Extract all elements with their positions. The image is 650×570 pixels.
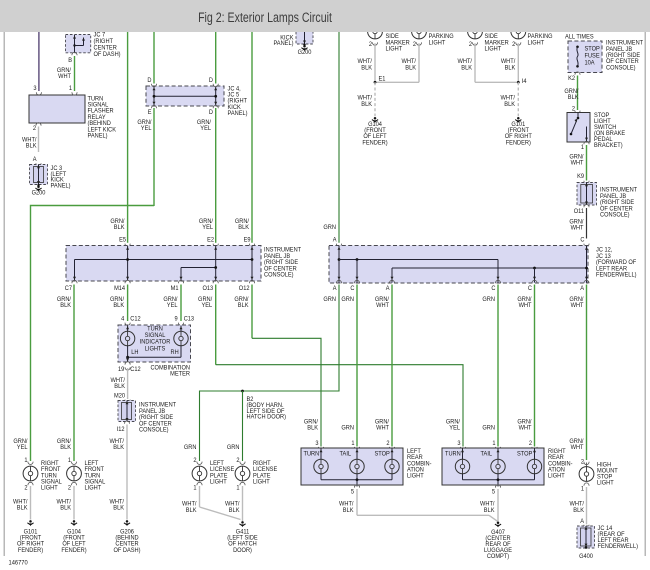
svg-text:19: 19 <box>118 367 125 373</box>
svg-text:YEL: YEL <box>202 225 213 231</box>
svg-text:A: A <box>333 286 337 292</box>
svg-text:BLK: BLK <box>114 225 125 231</box>
svg-text:BLK: BLK <box>60 445 71 451</box>
svg-text:C: C <box>528 286 533 292</box>
svg-text:RH: RH <box>171 350 179 356</box>
svg-text:PANEL): PANEL) <box>88 133 108 139</box>
svg-text:LH: LH <box>131 350 138 356</box>
svg-text:FENDERWELL): FENDERWELL) <box>596 272 636 278</box>
svg-text:Fig 2: Exterior Lamps Circuit: Fig 2: Exterior Lamps Circuit <box>198 9 332 25</box>
svg-text:YEL: YEL <box>449 425 460 431</box>
svg-text:COMPT): COMPT) <box>487 554 509 560</box>
svg-text:FUSE: FUSE <box>585 53 600 59</box>
svg-text:BLK: BLK <box>113 505 124 511</box>
svg-text:BLK: BLK <box>17 505 28 511</box>
svg-text:(RIGHT: (RIGHT <box>94 39 114 45</box>
svg-text:WHT: WHT <box>571 225 584 231</box>
svg-text:LIGHT: LIGHT <box>528 40 545 46</box>
svg-text:LIGHT: LIGHT <box>85 485 102 491</box>
svg-text:WHT: WHT <box>519 303 532 309</box>
svg-text:BLK: BLK <box>307 425 318 431</box>
svg-text:LIGHT: LIGHT <box>597 480 614 486</box>
svg-text:BLK: BLK <box>568 95 579 101</box>
svg-text:E9: E9 <box>244 237 252 243</box>
svg-text:BLK: BLK <box>238 225 249 231</box>
svg-text:STOP: STOP <box>517 451 532 457</box>
svg-text:PANEL): PANEL) <box>51 183 71 189</box>
svg-text:TURN: TURN <box>304 451 320 457</box>
svg-text:BLK: BLK <box>238 303 249 309</box>
svg-text:COMBINATION: COMBINATION <box>150 365 190 371</box>
svg-text:YEL: YEL <box>141 126 152 132</box>
svg-text:A: A <box>386 286 390 292</box>
svg-text:FENDERWELL): FENDERWELL) <box>598 544 638 550</box>
svg-text:BRACKET): BRACKET) <box>594 143 623 149</box>
svg-text:WHT: WHT <box>571 445 584 451</box>
svg-text:STOP: STOP <box>585 46 600 52</box>
svg-text:BLK: BLK <box>573 508 584 514</box>
svg-text:LIGHT: LIGHT <box>429 40 446 46</box>
svg-text:BLK: BLK <box>229 508 240 514</box>
svg-text:JC 7: JC 7 <box>94 32 106 38</box>
svg-text:D: D <box>209 78 214 84</box>
svg-text:CONSOLE): CONSOLE) <box>606 65 636 71</box>
svg-text:BLK: BLK <box>405 65 416 71</box>
svg-text:M14: M14 <box>114 286 126 292</box>
svg-text:BLK: BLK <box>484 508 495 514</box>
svg-text:CONSOLE): CONSOLE) <box>264 272 294 278</box>
svg-text:BLK: BLK <box>504 102 515 108</box>
svg-text:10A: 10A <box>585 60 595 66</box>
svg-text:LIGHT: LIGHT <box>548 473 565 479</box>
svg-text:BLK: BLK <box>60 505 71 511</box>
svg-text:CONSOLE): CONSOLE) <box>600 212 630 218</box>
svg-text:LIGHT: LIGHT <box>41 485 58 491</box>
svg-text:BLK: BLK <box>60 303 71 309</box>
svg-text:BLK: BLK <box>186 508 197 514</box>
svg-text:C12: C12 <box>130 367 141 373</box>
svg-text:BLK: BLK <box>113 445 124 451</box>
svg-text:GRN: GRN <box>184 445 197 451</box>
svg-text:C12: C12 <box>130 316 141 322</box>
svg-text:C: C <box>580 237 585 243</box>
svg-text:A: A <box>33 157 37 163</box>
svg-text:FENDER): FENDER) <box>61 548 86 554</box>
svg-text:WHT: WHT <box>376 425 389 431</box>
svg-text:C: C <box>491 286 496 292</box>
svg-text:E: E <box>148 110 152 116</box>
svg-text:HATCH DOOR): HATCH DOOR) <box>247 414 287 420</box>
svg-text:WHT: WHT <box>519 425 532 431</box>
svg-text:G200: G200 <box>298 50 312 56</box>
svg-text:METER: METER <box>170 371 190 377</box>
svg-text:PANEL): PANEL) <box>273 41 293 47</box>
svg-text:M20: M20 <box>114 393 126 399</box>
svg-text:K2: K2 <box>568 76 576 82</box>
svg-text:OF DASH): OF DASH) <box>94 52 121 58</box>
svg-text:O13: O13 <box>202 286 213 292</box>
svg-text:I12: I12 <box>117 427 126 433</box>
svg-text:OF DASH): OF DASH) <box>113 548 140 554</box>
svg-text:BLK: BLK <box>461 65 472 71</box>
svg-text:BLK: BLK <box>361 65 372 71</box>
svg-text:INDICATOR: INDICATOR <box>140 339 171 345</box>
svg-text:WHT: WHT <box>376 303 389 309</box>
svg-text:BLK: BLK <box>343 508 354 514</box>
svg-text:K9: K9 <box>577 174 585 180</box>
svg-text:A: A <box>333 237 337 243</box>
svg-text:D: D <box>147 78 152 84</box>
svg-text:FENDER): FENDER) <box>18 548 43 554</box>
svg-text:GRN: GRN <box>341 425 354 431</box>
svg-text:E5: E5 <box>119 237 127 243</box>
svg-text:D: D <box>209 110 214 116</box>
svg-text:C: C <box>350 286 355 292</box>
svg-text:ALL TIMES: ALL TIMES <box>565 34 594 40</box>
svg-text:PANEL): PANEL) <box>228 111 248 117</box>
svg-text:LIGHT: LIGHT <box>407 473 424 479</box>
svg-text:O12: O12 <box>239 286 250 292</box>
svg-text:DOOR): DOOR) <box>233 548 252 554</box>
svg-text:A: A <box>580 286 584 292</box>
svg-text:YEL: YEL <box>201 303 212 309</box>
svg-text:CONSOLE): CONSOLE) <box>139 427 169 433</box>
svg-text:SIGNAL: SIGNAL <box>145 333 166 339</box>
svg-text:LIGHT: LIGHT <box>485 46 502 52</box>
svg-text:GRN: GRN <box>227 445 240 451</box>
svg-text:WHT: WHT <box>571 160 584 166</box>
svg-text:TAIL: TAIL <box>481 451 493 457</box>
svg-text:WHT: WHT <box>58 74 71 80</box>
svg-text:A: A <box>580 519 584 525</box>
svg-text:B: B <box>68 58 72 64</box>
svg-text:BLK: BLK <box>505 65 516 71</box>
svg-text:GRN: GRN <box>323 297 336 303</box>
svg-text:BLK: BLK <box>113 303 124 309</box>
svg-text:LIGHT: LIGHT <box>253 479 270 485</box>
svg-text:STOP: STOP <box>375 451 390 457</box>
svg-text:C13: C13 <box>184 316 195 322</box>
svg-text:TURN: TURN <box>445 451 461 457</box>
svg-text:CENTER: CENTER <box>94 45 118 51</box>
svg-text:TURN: TURN <box>147 326 163 332</box>
svg-text:LIGHT: LIGHT <box>210 479 227 485</box>
svg-text:TAIL: TAIL <box>340 451 352 457</box>
svg-text:GRN: GRN <box>482 297 495 303</box>
svg-text:YEL: YEL <box>200 126 211 132</box>
svg-text:GRN: GRN <box>323 225 336 231</box>
svg-text:FENDER): FENDER) <box>362 140 387 146</box>
svg-text:BLK: BLK <box>361 102 372 108</box>
svg-text:YEL: YEL <box>17 445 28 451</box>
svg-text:G200: G200 <box>32 190 46 196</box>
svg-text:G400: G400 <box>579 554 593 560</box>
svg-text:GRN: GRN <box>482 425 495 431</box>
svg-text:BLK: BLK <box>114 384 125 390</box>
svg-text:LIGHT: LIGHT <box>386 46 403 52</box>
svg-text:GRN: GRN <box>341 297 354 303</box>
svg-text:LIGHTS: LIGHTS <box>145 346 165 352</box>
svg-text:146770: 146770 <box>9 559 29 566</box>
svg-text:M1: M1 <box>171 286 180 292</box>
svg-text:C7: C7 <box>65 286 73 292</box>
svg-text:E1: E1 <box>379 76 387 82</box>
svg-text:YEL: YEL <box>167 303 178 309</box>
svg-text:O11: O11 <box>574 209 585 215</box>
svg-text:FENDER): FENDER) <box>506 140 531 146</box>
svg-text:WHT: WHT <box>571 303 584 309</box>
svg-text:I4: I4 <box>522 79 527 85</box>
svg-text:BLK: BLK <box>26 143 37 149</box>
svg-text:E2: E2 <box>207 237 215 243</box>
